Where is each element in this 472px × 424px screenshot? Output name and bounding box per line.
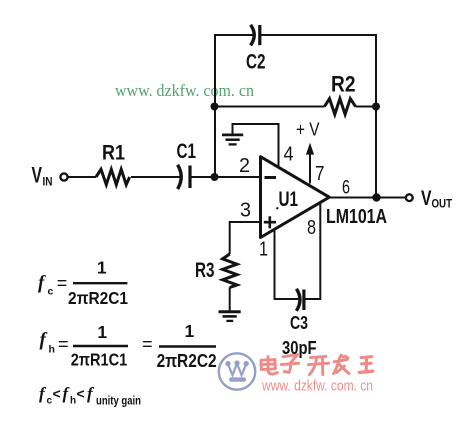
svg-text:OUT: OUT [432,199,453,211]
svg-text:U1: U1 [279,187,299,211]
svg-text:4: 4 [284,144,294,166]
svg-text:<: < [77,386,85,402]
svg-text:C1: C1 [177,140,197,163]
svg-text:=: = [142,334,153,354]
svg-text:R2: R2 [331,72,356,97]
svg-text:+ V: + V [296,118,320,139]
svg-text:1: 1 [259,239,268,261]
svg-text:2πR1C1: 2πR1C1 [71,350,128,370]
svg-text:30pF: 30pF [282,338,317,358]
svg-text:1: 1 [97,258,107,278]
svg-text:8: 8 [307,217,316,239]
svg-text:IN: IN [43,177,53,189]
svg-text:3: 3 [240,200,251,222]
svg-text:f: f [87,384,95,403]
svg-text:1: 1 [97,322,107,342]
svg-text:=: = [57,273,68,293]
svg-text:h: h [70,396,76,407]
svg-text:C3: C3 [290,313,308,333]
svg-text:c: c [48,285,54,297]
svg-text:7: 7 [315,163,325,185]
svg-text:2πR2C1: 2πR2C1 [68,288,128,308]
svg-text:www. dzkfw. com. cn: www. dzkfw. com. cn [261,378,373,395]
svg-text:h: h [49,344,55,356]
svg-text:V: V [32,162,43,187]
svg-text:=: = [58,334,69,354]
svg-text:LM101A: LM101A [326,205,387,228]
svg-text:<: < [53,386,61,402]
svg-text:f: f [38,273,46,294]
svg-text:R1: R1 [102,142,125,165]
svg-text:2πR2C2: 2πR2C2 [157,351,217,371]
svg-text:unity gain: unity gain [96,396,141,408]
svg-text:6: 6 [342,178,350,199]
svg-text:f: f [40,330,48,351]
svg-text:1: 1 [185,321,195,341]
svg-text:C2: C2 [246,51,266,74]
svg-text:R3: R3 [195,259,215,282]
svg-text:V: V [421,187,432,210]
svg-text:www. dzkfw. com. cn: www. dzkfw. com. cn [115,81,254,100]
svg-text:2: 2 [239,155,250,177]
